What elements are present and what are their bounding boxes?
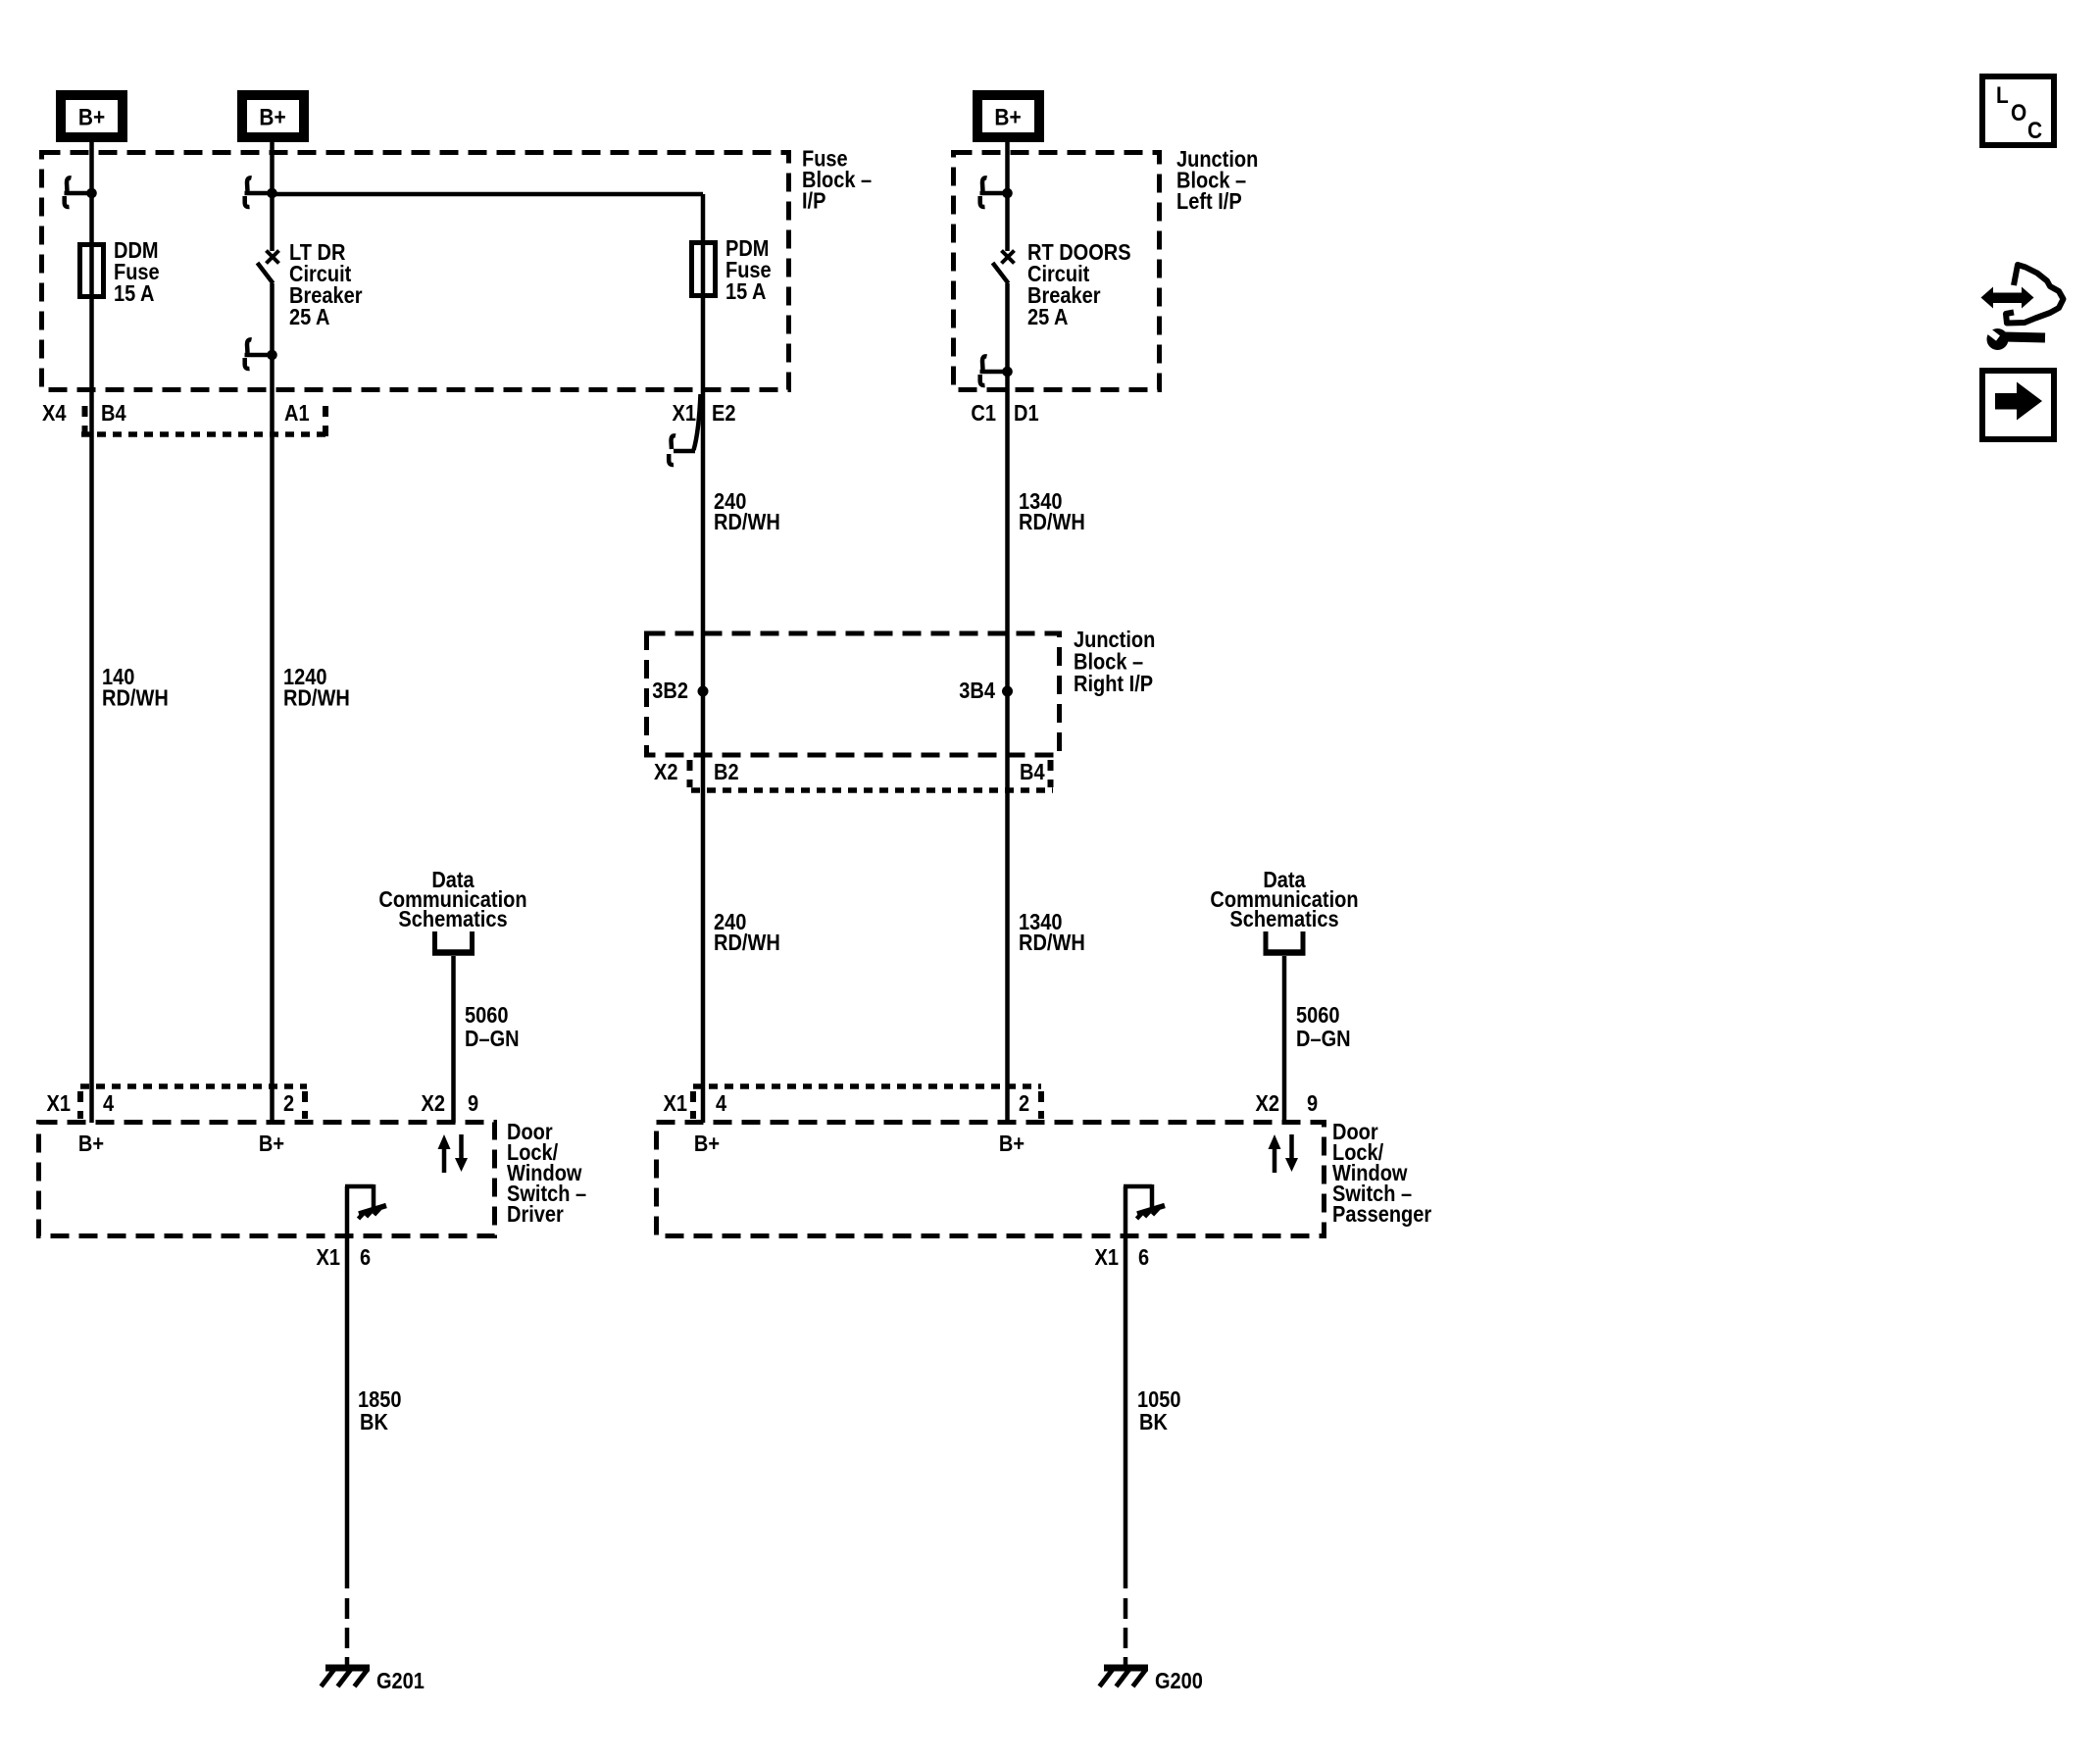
svg-text:5060: 5060 [465, 1002, 509, 1029]
svg-text:X2: X2 [422, 1090, 445, 1117]
svg-text:RD/WH: RD/WH [1019, 509, 1085, 535]
svg-text:G200: G200 [1155, 1668, 1203, 1694]
svg-text:3B4: 3B4 [959, 678, 995, 704]
svg-text:X1: X1 [664, 1090, 687, 1117]
svg-text:Schematics: Schematics [398, 906, 507, 932]
svg-text:RD/WH: RD/WH [102, 684, 169, 711]
svg-text:4: 4 [103, 1090, 114, 1117]
svg-text:X1: X1 [47, 1090, 71, 1117]
svg-text:B+: B+ [694, 1131, 720, 1157]
svg-text:B+: B+ [78, 104, 105, 130]
svg-text:I/P: I/P [802, 187, 825, 214]
svg-text:G201: G201 [376, 1668, 425, 1694]
svg-text:6: 6 [1138, 1244, 1149, 1271]
svg-text:9: 9 [1307, 1090, 1318, 1117]
svg-text:X1: X1 [317, 1244, 340, 1271]
svg-text:BK: BK [1139, 1409, 1168, 1435]
svg-text:B2: B2 [714, 759, 739, 785]
svg-text:RD/WH: RD/WH [1019, 930, 1085, 956]
svg-text:15 A: 15 A [725, 278, 767, 305]
svg-text:D1: D1 [1014, 400, 1039, 427]
svg-text:O: O [2011, 100, 2026, 126]
svg-text:D–GN: D–GN [1296, 1026, 1351, 1052]
svg-text:B+: B+ [259, 104, 285, 130]
svg-text:B4: B4 [101, 400, 126, 427]
svg-text:D–GN: D–GN [465, 1026, 520, 1052]
svg-text:Driver: Driver [507, 1201, 564, 1228]
svg-text:X1: X1 [673, 400, 696, 427]
svg-text:5060: 5060 [1296, 1002, 1340, 1029]
svg-text:25 A: 25 A [289, 304, 330, 330]
svg-text:B4: B4 [1020, 759, 1045, 785]
svg-text:9: 9 [468, 1090, 478, 1117]
svg-text:Left I/P: Left I/P [1176, 188, 1242, 215]
svg-text:C1: C1 [971, 400, 996, 427]
svg-text:B+: B+ [994, 104, 1021, 130]
svg-text:RD/WH: RD/WH [714, 930, 780, 956]
svg-text:RD/WH: RD/WH [714, 509, 780, 535]
svg-text:B+: B+ [259, 1131, 284, 1157]
svg-text:X2: X2 [654, 759, 677, 785]
svg-text:E2: E2 [712, 400, 735, 427]
svg-text:Schematics: Schematics [1229, 906, 1338, 932]
svg-text:L: L [1996, 82, 2009, 109]
svg-text:4: 4 [716, 1090, 726, 1117]
svg-text:B+: B+ [78, 1131, 104, 1157]
svg-text:X2: X2 [1256, 1090, 1279, 1117]
svg-text:BK: BK [360, 1409, 388, 1435]
svg-text:6: 6 [360, 1244, 371, 1271]
svg-text:Right I/P: Right I/P [1074, 671, 1153, 697]
svg-text:A1: A1 [284, 400, 310, 427]
svg-text:X1: X1 [1095, 1244, 1119, 1271]
svg-text:3B2: 3B2 [652, 678, 688, 704]
svg-text:X4: X4 [42, 400, 66, 427]
svg-text:C: C [2027, 118, 2042, 144]
svg-text:RD/WH: RD/WH [283, 684, 350, 711]
svg-text:Passenger: Passenger [1332, 1201, 1432, 1228]
svg-text:25 A: 25 A [1027, 304, 1069, 330]
svg-text:15 A: 15 A [114, 280, 155, 307]
svg-text:B+: B+ [999, 1131, 1025, 1157]
svg-text:2: 2 [1019, 1090, 1029, 1117]
svg-text:2: 2 [283, 1090, 294, 1117]
